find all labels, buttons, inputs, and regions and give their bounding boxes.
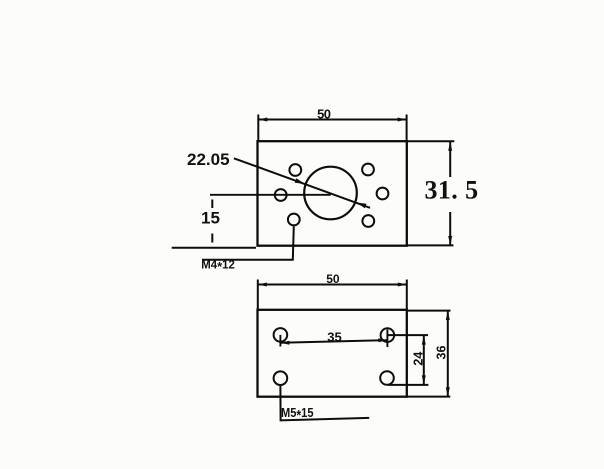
dimension line 50 (bottom view) — [258, 284, 407, 286]
arrow 24 down — [422, 375, 426, 384]
extension line bottom of 31.5 dim — [407, 244, 454, 246]
large center bore — [304, 167, 357, 220]
svg-text:31. 5: 31. 5 — [425, 176, 479, 205]
center reference line to bore center — [210, 194, 331, 196]
top view plate outline — [258, 141, 407, 246]
arrow 31.5 up — [448, 142, 452, 151]
arrow 22.05 upper — [295, 178, 305, 184]
leader for M4*12 — [202, 226, 294, 259]
svg-text:50: 50 — [317, 107, 331, 122]
extension line left of 50 dim (bottom view) — [257, 280, 259, 311]
arrow 36 down — [446, 387, 450, 396]
dimension line 24 — [423, 336, 425, 385]
extension line top of 31.5 dim — [407, 140, 454, 142]
arrow 36 up — [446, 311, 450, 320]
extension line right of 50 dim (bottom view) — [406, 280, 408, 311]
bolt hole top-right — [381, 328, 395, 342]
arrow 22.05 lower — [356, 203, 366, 209]
bolt hole bottom-left — [274, 371, 288, 385]
hole top-left — [289, 164, 301, 176]
dimension line 31.5 lower segment — [449, 212, 451, 245]
svg-text:50: 50 — [326, 272, 340, 286]
dimension line 36 — [447, 311, 449, 396]
extension line bottom of 36 dim — [407, 396, 450, 398]
arrow 35 right — [378, 338, 387, 342]
arrow 24 up — [422, 336, 426, 345]
lower reference line of 15 dim — [172, 247, 256, 249]
center tick top-right hole — [386, 330, 388, 348]
dimension line 50 (top view) — [258, 119, 406, 121]
dimension line 31.5 upper segment — [449, 142, 451, 177]
svg-text:36: 36 — [434, 346, 448, 360]
connector bottom for 24 dim — [388, 384, 428, 386]
hole mid-left — [275, 189, 287, 201]
extension line right of 50 dim (top view) — [406, 115, 408, 142]
dimension line 35 — [280, 340, 387, 343]
hole top-right — [362, 164, 374, 176]
svg-text:M4*12: M4*12 — [201, 259, 235, 274]
arrow 50 bottom left — [258, 283, 267, 287]
dash above 15 text — [211, 200, 213, 209]
arrow 50 top right — [398, 118, 407, 122]
svg-text:35: 35 — [327, 329, 341, 344]
bolt hole top-left — [274, 328, 288, 342]
bottom view plate outline — [258, 310, 407, 397]
extension line top of 36 dim — [407, 310, 451, 312]
bolt hole bottom-right — [380, 371, 394, 385]
connector top for 24 dim — [387, 334, 428, 336]
svg-text:15: 15 — [201, 209, 220, 228]
center tick top-left hole — [279, 335, 281, 347]
leader for M5*15 — [280, 386, 369, 421]
dash below 15 text — [211, 234, 213, 243]
arrow 50 top left — [258, 118, 267, 122]
arrow 31.5 down — [448, 236, 452, 245]
hole mid-right — [377, 188, 389, 200]
leader line 22.05 diagonal — [234, 158, 370, 208]
svg-text:22.05: 22.05 — [187, 150, 230, 169]
arrow 50 bottom right — [398, 283, 407, 287]
hole bottom-left — [288, 214, 300, 226]
svg-text:24: 24 — [412, 352, 426, 366]
hole bottom-right — [362, 215, 374, 227]
arrow 35 left — [280, 341, 289, 345]
extension line left of 50 dim (top view) — [257, 115, 259, 142]
